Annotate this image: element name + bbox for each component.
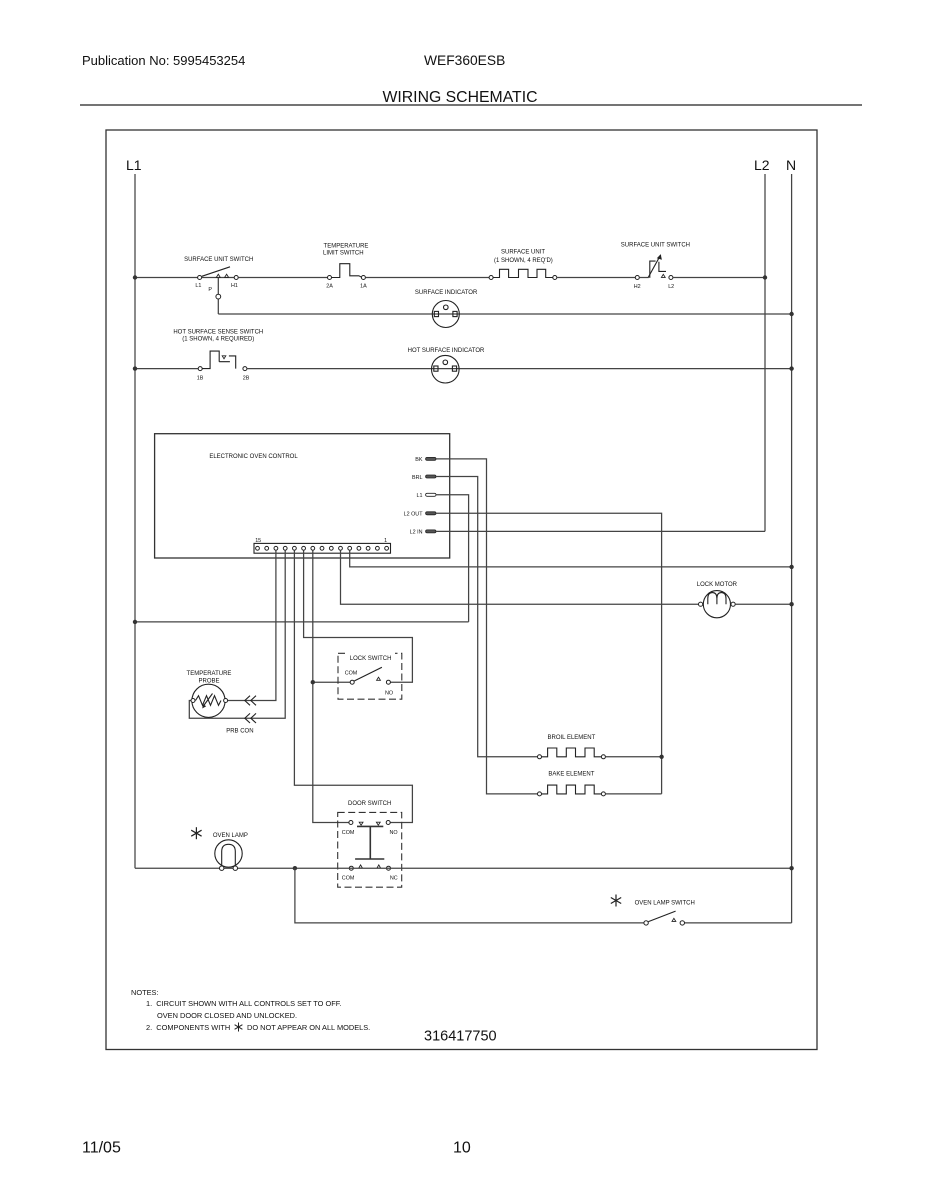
surface unit label line2 [494, 258, 553, 264]
wire row2 segment L1 bus to 1B [135, 368, 198, 370]
svg-text:15: 15 [255, 538, 261, 544]
surface unit switch right bracket right [659, 262, 666, 272]
note 1 line 1 [146, 999, 341, 1008]
door switch lower contact marks [359, 865, 381, 868]
bake element label [548, 772, 594, 778]
pin label L2 IN [410, 530, 423, 536]
svg-text:HOT SURFACE SENSE SWITCH: HOT SURFACE SENSE SWITCH [173, 330, 263, 336]
surface unit switch right contact mark [661, 274, 665, 277]
svg-text:1. CIRCUIT SHOWN WITH ALL CON: 1. CIRCUIT SHOWN WITH ALL CONTROLS SET T… [146, 999, 341, 1008]
terminal strip pin circles [256, 546, 389, 550]
lock motor M1 [699, 591, 736, 618]
door switch upper contact NO [386, 821, 390, 825]
door switch lower label NC [390, 876, 398, 882]
pin label P [208, 287, 212, 293]
pin label 2B [243, 376, 250, 382]
junction oven lamp row / N bus [789, 866, 793, 870]
pin label 1A [360, 284, 367, 290]
wire row1 segment L2 contact to L2 bus [673, 277, 765, 279]
svg-text:DO NOT APPEAR ON ALL MODELS.: DO NOT APPEAR ON ALL MODELS. [247, 1023, 370, 1032]
svg-text:COM: COM [342, 876, 355, 882]
svg-text:L2: L2 [754, 157, 770, 173]
surface indicator lamp [432, 301, 459, 328]
svg-text:OVEN LAMP: OVEN LAMP [213, 833, 248, 839]
svg-text:BAKE ELEMENT: BAKE ELEMENT [548, 772, 594, 778]
wire pin11 to door switch NO [294, 550, 412, 822]
wire oven lamp switch row [295, 868, 792, 923]
svg-text:OVEN LAMP SWITCH: OVEN LAMP SWITCH [635, 901, 695, 907]
oven lamp asterisk [191, 827, 201, 839]
probe connector label PRB CON [226, 729, 253, 735]
footer page number [453, 1140, 471, 1157]
surface unit switch right contact L2 [669, 276, 673, 280]
junction L1 bus / row1 [133, 275, 137, 279]
hot surface indicator lamp [432, 355, 460, 383]
door switch upper contact COM [349, 821, 353, 825]
surface unit label line1 [501, 250, 545, 256]
wire row1 segment under switch L1-H1 [202, 277, 234, 279]
temperature limit switch body [332, 264, 362, 278]
junction oven lamp row / lamp switch branch [293, 866, 297, 870]
bake element right terminal [601, 792, 605, 796]
svg-text:WEF360ESB: WEF360ESB [424, 53, 505, 68]
hot surface sense switch body [202, 351, 236, 369]
lock switch contact COM [350, 680, 354, 684]
wire row1 segment L1 bus to surface unit switch [135, 277, 198, 279]
pin label 2A [326, 284, 333, 290]
wire L2 OUT pin to elements column [436, 513, 662, 794]
wire pin6 to lock motor [341, 550, 699, 604]
note 2 [146, 1023, 370, 1032]
temperature limit switch contact 1A [361, 276, 365, 280]
svg-text:NOTES:: NOTES: [131, 988, 159, 997]
connector circle on P branch [216, 294, 221, 299]
surface unit switch right label [621, 243, 690, 249]
oven lamp switch left contact [644, 921, 648, 925]
surface unit heating element [493, 269, 553, 277]
oven lamp switch asterisk [611, 895, 621, 907]
svg-text:PROBE: PROBE [198, 679, 219, 685]
svg-text:H2: H2 [634, 284, 641, 290]
junction L1 bus / row2 [133, 366, 137, 370]
svg-text:PRB CON: PRB CON [226, 729, 253, 735]
temperature probe label line1 [187, 671, 232, 677]
lock switch label COM [345, 670, 358, 676]
svg-text:SURFACE UNIT: SURFACE UNIT [501, 250, 545, 256]
svg-text:TEMPERATURE: TEMPERATURE [187, 671, 232, 677]
svg-text:SURFACE INDICATOR: SURFACE INDICATOR [415, 290, 478, 296]
wire broil to L2 OUT column [605, 756, 661, 758]
svg-text:COM: COM [342, 830, 355, 836]
bake element body [542, 785, 602, 794]
svg-text:NC: NC [390, 876, 398, 882]
wire pin10 to lock switch NO [304, 550, 413, 682]
node L1 label [126, 157, 142, 173]
wire pin9 tap to lock switch COM [313, 681, 350, 683]
temperature limit switch label line1 [324, 244, 369, 250]
junction L1 bus / L1 row [133, 620, 137, 624]
svg-text:P: P [208, 287, 212, 293]
svg-text:NO: NO [385, 690, 393, 696]
temperature probe RT1 [191, 684, 228, 717]
svg-text:L2 IN: L2 IN [410, 530, 423, 536]
wire row1 segment surface unit to H2 [557, 277, 636, 279]
door switch lower contact COM [349, 866, 353, 870]
svg-text:L1: L1 [126, 157, 142, 173]
schematic border frame [106, 130, 817, 1050]
wire L1 bus [134, 174, 136, 868]
broil element label [548, 735, 596, 741]
svg-text:LIMIT SWITCH: LIMIT SWITCH [323, 251, 364, 257]
wire row1 segment 1A to surface unit [365, 277, 489, 279]
surface indicator label [415, 290, 478, 296]
svg-text:10: 10 [453, 1140, 471, 1157]
svg-text:BRL: BRL [412, 475, 423, 481]
svg-text:LOCK MOTOR: LOCK MOTOR [697, 582, 738, 588]
pin label L2 OUT [404, 512, 424, 518]
wire L1 row from bus to EOC [135, 621, 469, 623]
wire row1 segment H1 to 2A [238, 277, 327, 279]
notes heading [131, 988, 159, 997]
pin label H2 [634, 284, 641, 290]
surface unit switch SW1 label [184, 257, 253, 263]
svg-text:316417750: 316417750 [424, 1029, 497, 1045]
svg-text:BROIL ELEMENT: BROIL ELEMENT [548, 735, 596, 741]
lock switch label [345, 652, 395, 662]
wire L2 bus [764, 174, 766, 531]
wire L2 IN pin to L2 bus [436, 530, 765, 532]
oven lamp DS1 [215, 840, 242, 871]
surface unit switch right blade with arrow [648, 254, 662, 278]
wire pin12 to temperature probe bottom [189, 550, 285, 718]
svg-text:COM: COM [345, 670, 358, 676]
svg-text:DOOR SWITCH: DOOR SWITCH [348, 801, 391, 807]
surface unit switch right contact H2 [635, 276, 639, 280]
node N label [786, 157, 796, 173]
hot surface sense switch contact 1B [198, 367, 202, 371]
header rule [80, 104, 862, 106]
svg-text:2A: 2A [326, 284, 333, 290]
pin label L2 [668, 284, 674, 290]
electronic oven control label [209, 454, 298, 460]
wire surface indicator row [218, 313, 791, 315]
junction lock motor row / N bus [789, 602, 793, 606]
door switch lower label COM [342, 876, 355, 882]
svg-text:1: 1 [384, 538, 387, 544]
oven lamp switch right contact [680, 921, 684, 925]
surface unit switch contact mark H1 side [225, 274, 229, 277]
svg-text:L2: L2 [668, 284, 674, 290]
connector lug L2 OUT [426, 512, 436, 515]
connector chevrons probe bottom wire [245, 713, 256, 723]
surface unit switch contact L1 [198, 276, 202, 280]
wire L1 pin down [436, 495, 469, 622]
temperature limit switch label line2 [323, 251, 364, 257]
svg-text:2B: 2B [243, 376, 250, 382]
header title WIRING SCHEMATIC [382, 89, 537, 106]
broil element body [542, 748, 602, 757]
junction broil / L2 OUT column [659, 755, 663, 759]
connector lug BK [426, 457, 436, 460]
connector lug BRL [426, 475, 436, 478]
door switch upper label COM [342, 830, 355, 836]
svg-text:L1: L1 [195, 283, 201, 289]
electronic oven control box U1 [155, 434, 450, 558]
surface unit switch blade [202, 267, 230, 277]
door switch label [348, 801, 391, 807]
terminal strip pin number 15 [255, 538, 261, 544]
junction row1 / L2 bus [763, 275, 767, 279]
oven lamp label [213, 833, 248, 839]
pin label L1 [417, 493, 423, 499]
door switch actuator bar [355, 826, 384, 859]
wire P branch down to surface indicator row [217, 278, 219, 315]
connector chevrons probe top wire [245, 696, 256, 706]
svg-text:HOT SURFACE INDICATOR: HOT SURFACE INDICATOR [408, 348, 485, 354]
broil element left terminal [538, 755, 542, 759]
lock switch contact mark [377, 677, 381, 680]
svg-text:OVEN DOOR CLOSED AND UNLOCKED.: OVEN DOOR CLOSED AND UNLOCKED. [157, 1011, 297, 1020]
surface unit switch contact H1 [234, 276, 238, 280]
wire row2 segment 2B to N bus [247, 368, 792, 370]
oven lamp switch label [635, 901, 695, 907]
terminal strip P1 [254, 543, 391, 553]
wire lock motor to N bus [735, 603, 791, 605]
header model number [424, 53, 505, 68]
wire oven lamp row L1 bus to N bus [135, 867, 792, 869]
svg-text:N: N [786, 157, 796, 173]
lock switch label NO [385, 690, 393, 696]
wire pin9 to door switch COM [313, 550, 349, 822]
drawing number [424, 1029, 497, 1045]
svg-text:BK: BK [415, 457, 423, 463]
lock motor label [697, 582, 738, 588]
junction row2 / N bus [789, 366, 793, 370]
wire stub H2 to blade [639, 277, 648, 279]
wire N bus [791, 174, 793, 923]
header publication number [82, 53, 245, 68]
lock switch blade [354, 667, 382, 681]
node L2 label [754, 157, 770, 173]
surface unit switch right bracket left [650, 261, 656, 278]
hot surface indicator label [408, 348, 485, 354]
svg-text:(1 SHOWN, 4 REQ'D): (1 SHOWN, 4 REQ'D) [494, 258, 553, 264]
temperature limit switch contact 2A [328, 276, 332, 280]
hot surface sense switch contact 2B [243, 367, 247, 371]
surface unit switch contact mark P [216, 274, 220, 277]
wire BK pin to bake element [436, 459, 538, 794]
pin label BRL [412, 475, 423, 481]
svg-text:ELECTRONIC OVEN CONTROL: ELECTRONIC OVEN CONTROL [209, 454, 298, 460]
junction pin5 row / N bus [789, 565, 793, 569]
pin label H1 [231, 283, 238, 289]
svg-text:L2 OUT: L2 OUT [404, 512, 424, 518]
svg-text:11/05: 11/05 [82, 1140, 121, 1157]
pin label BK [415, 457, 423, 463]
svg-text:1A: 1A [360, 284, 367, 290]
note 1 line 2 [157, 1011, 297, 1020]
door switch dashed enclosure [338, 812, 402, 887]
door switch lower contact NC [387, 866, 391, 870]
note 2 asterisk [235, 1023, 243, 1032]
surface unit left terminal [489, 276, 493, 280]
oven lamp switch contact mark [672, 918, 676, 921]
svg-text:(1 SHOWN, 4 REQUIRED): (1 SHOWN, 4 REQUIRED) [182, 337, 254, 343]
svg-text:2. COMPONENTS WITH: 2. COMPONENTS WITH [146, 1023, 230, 1032]
bake element left terminal [538, 792, 542, 796]
svg-text:TEMPERATURE: TEMPERATURE [324, 244, 369, 250]
lock switch contact NO [386, 680, 390, 684]
svg-text:SURFACE UNIT SWITCH: SURFACE UNIT SWITCH [184, 257, 253, 263]
svg-text:L1: L1 [417, 493, 423, 499]
connector lug L1 [426, 493, 436, 496]
junction surface indicator row / N bus [789, 312, 793, 316]
hot surface sense switch label line1 [173, 330, 263, 336]
lock switch dashed enclosure [338, 653, 402, 699]
pin label 1B [197, 376, 204, 382]
door switch upper label NO [389, 830, 397, 836]
terminal strip pin number 1 [384, 538, 387, 544]
surface unit right terminal [553, 276, 557, 280]
temperature probe label line2 [198, 679, 219, 685]
svg-text:SURFACE UNIT SWITCH: SURFACE UNIT SWITCH [621, 243, 690, 249]
door switch upper contact marks [359, 822, 380, 825]
wire BRL pin to broil element [436, 477, 538, 757]
svg-text:H1: H1 [231, 283, 238, 289]
oven lamp switch blade [648, 911, 675, 922]
wire bake to L2 OUT column [605, 793, 661, 795]
wire pin5 to N bus [350, 550, 792, 567]
broil element right terminal [601, 755, 605, 759]
footer date [82, 1140, 121, 1157]
svg-text:LOCK SWITCH: LOCK SWITCH [350, 656, 392, 662]
svg-text:1B: 1B [197, 376, 204, 382]
svg-text:WIRING SCHEMATIC: WIRING SCHEMATIC [382, 89, 537, 106]
junction pin9 / lock switch COM [311, 680, 315, 684]
connector lug L2 IN [426, 530, 436, 533]
wire pin13 to temperature probe top [228, 550, 276, 700]
svg-text:NO: NO [389, 830, 397, 836]
hot surface sense switch label line2 [182, 337, 254, 343]
svg-text:Publication No: 5995453254: Publication No: 5995453254 [82, 53, 245, 68]
pin label L1 [195, 283, 201, 289]
